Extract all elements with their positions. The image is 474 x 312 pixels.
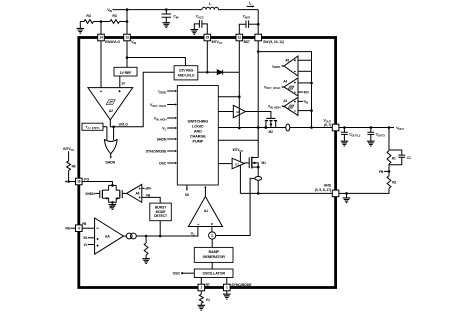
node SS soft start — [186, 185, 188, 189]
wire logic SW row 2 — [218, 139, 258, 141]
wire summer to ramp generator — [211, 239, 213, 247]
svg-text:SS: SS — [83, 236, 87, 240]
transistor M2 — [266, 117, 275, 119]
wire oscillator to RT pin — [200, 278, 202, 285]
svg-text:R2: R2 — [392, 180, 396, 184]
op-amp A4 VOUT_OVLO — [284, 78, 298, 96]
driver G1 — [232, 158, 244, 169]
wire EN/UVLO pin to A2 — [100, 41, 102, 88]
wire BST internal — [238, 41, 240, 128]
wire UVLO output — [110, 72, 174, 127]
pin 2 RT — [198, 284, 205, 291]
wire A4 plus to VOUT node — [298, 82, 312, 84]
capacitor COUT1,2 — [343, 128, 345, 133]
svg-text:A6: A6 — [135, 192, 139, 196]
svg-text:R6: R6 — [72, 165, 76, 169]
block OSCILLATOR — [194, 269, 233, 278]
svg-text:SW (9, 10, 11): SW (9, 10, 11) — [263, 40, 284, 44]
resistor VC clamp — [145, 236, 147, 243]
svg-text:CHARGE: CHARGE — [190, 134, 206, 138]
pin 15 INTVCC — [204, 34, 211, 41]
pin 14 EN/UVLO — [98, 34, 105, 41]
svg-text:PG: PG — [84, 177, 89, 181]
wire logic SW sense row — [218, 127, 266, 129]
block SWITCHING LOGIC AND CHARGE PUMP — [177, 86, 218, 186]
svg-text:OSC: OSC — [173, 271, 181, 275]
svg-text:16: 16 — [77, 180, 81, 184]
wire A1 plus to summer — [211, 227, 213, 232]
svg-text:A5: A5 — [285, 58, 289, 62]
node FB divider — [388, 170, 391, 173]
svg-text:R1: R1 — [392, 156, 396, 160]
sense element M2 — [286, 124, 290, 131]
wire A5 minus to VOUT node — [298, 70, 312, 72]
pin 16 PG — [76, 178, 83, 185]
svg-text:±8%: ±8% — [145, 187, 151, 191]
wire VC — [136, 227, 198, 237]
wire A3 minus to VOUT node — [298, 110, 312, 112]
svg-text:13: 13 — [125, 36, 129, 40]
svg-text:EA: EA — [105, 234, 110, 238]
svg-text:A4: A4 — [283, 79, 287, 83]
wire slope sense to summer — [216, 178, 255, 235]
wire EN/UVLO pin feed — [100, 22, 102, 35]
wire 1V reference to A2 — [119, 76, 121, 88]
svg-text:RAMP: RAMP — [209, 250, 220, 254]
pin 13 VIN — [124, 34, 131, 41]
svg-text:SHDN: SHDN — [105, 161, 115, 165]
block RAMP GENERATOR — [194, 247, 233, 262]
svg-text:A1: A1 — [204, 209, 208, 213]
ground EN divider — [77, 28, 85, 33]
block 3.5V REG AND UVLO — [174, 66, 198, 80]
wire SW to A5 plus — [258, 52, 311, 61]
wire logic to G1 — [218, 163, 232, 165]
op-amp EA error amplifier — [95, 218, 124, 254]
wire UVLO to OR gate — [112, 126, 115, 129]
svg-text:A2: A2 — [109, 109, 113, 113]
wire SW drop from rail — [257, 10, 259, 35]
svg-text:UVLO: UVLO — [119, 123, 129, 127]
capacitor COUT3 — [370, 128, 372, 133]
resistor R6 — [68, 151, 70, 161]
svg-text:M1: M1 — [262, 161, 267, 165]
svg-text:SHDN: SHDN — [157, 137, 167, 141]
ground VC clamp — [142, 259, 150, 264]
ground SYNC — [226, 291, 228, 294]
svg-text:15: 15 — [206, 36, 210, 40]
resistor R4 — [80, 21, 84, 23]
wire INTVCC pin to regulator — [206, 41, 208, 72]
summer sigma — [209, 232, 216, 239]
svg-text:TJ > 170°C: TJ > 170°C — [86, 125, 101, 130]
wire PG internal — [82, 182, 112, 186]
block BURST MODE DETECT — [150, 203, 172, 221]
ground output divider — [345, 192, 348, 195]
wire GND rail — [240, 192, 332, 194]
svg-text:3.5V REG: 3.5V REG — [179, 69, 194, 73]
inductor L — [202, 7, 219, 9]
ground RT — [198, 305, 206, 310]
pin 12 BST — [236, 34, 243, 41]
svg-text:SHDN: SHDN — [85, 192, 95, 196]
wire comparator common to VOUT — [311, 52, 313, 128]
svg-text:OSC: OSC — [159, 161, 167, 165]
svg-text:GND: GND — [324, 183, 332, 187]
IC boundary — [79, 38, 336, 288]
op-amp A2 — [88, 88, 133, 120]
resistor R3 — [101, 21, 110, 23]
node VIN/R3 junction — [126, 20, 129, 23]
wire FB to A6 and burst detect — [142, 197, 160, 203]
transistor PG pulldown pair — [102, 185, 119, 190]
node PG external — [67, 180, 70, 183]
svg-text:PUMP: PUMP — [193, 139, 204, 143]
op-amp A6 power good window comparator — [127, 184, 142, 202]
svg-text:SYNC/MODE: SYNC/MODE — [146, 149, 167, 153]
ground PG pulldown — [109, 205, 117, 210]
resistor R1 — [388, 128, 390, 151]
svg-text:14: 14 — [99, 36, 103, 40]
pin SW (9,10,11) — [255, 34, 262, 41]
svg-text:R4: R4 — [86, 14, 90, 18]
svg-text:C1: C1 — [407, 156, 411, 160]
svg-text:GENERATOR: GENERATOR — [203, 255, 226, 259]
wire SW vertical — [257, 41, 259, 158]
svg-text:SYNC/MODE: SYNC/MODE — [231, 283, 252, 287]
diode bootstrap — [207, 71, 217, 73]
wire M1 source to ground sense — [257, 167, 259, 193]
capacitor C1 — [389, 150, 402, 155]
node +/-8% reference — [142, 187, 145, 189]
node EN divider tap — [100, 20, 103, 23]
wire logic to BST charge pump — [218, 96, 239, 98]
svg-text:LOGIC: LOGIC — [192, 124, 204, 128]
wire A1 output to logic — [204, 188, 206, 197]
op-amp A3 VIN_HIGH — [284, 97, 298, 115]
svg-text:EN/UVLO: EN/UVLO — [105, 40, 120, 44]
transistor M1 — [248, 157, 250, 168]
svg-text:(3, 5, 8, 17): (3, 5, 8, 17) — [315, 188, 331, 192]
op-amp A5 I_ZERO — [284, 56, 298, 76]
svg-text:BST: BST — [244, 40, 250, 44]
wire G2 to M2 gate — [246, 112, 271, 119]
svg-text:M2: M2 — [269, 130, 274, 134]
wire VIN pin feed — [126, 10, 128, 35]
wire TJ to OR gate — [103, 127, 107, 140]
svg-text:G1: G1 — [235, 163, 239, 167]
wire logic to G2 — [218, 111, 233, 113]
node VIN sense — [298, 100, 303, 102]
svg-text:AND: AND — [194, 129, 202, 133]
svg-text:FB: FB — [65, 227, 70, 231]
svg-text:SWITCHING: SWITCHING — [187, 119, 208, 123]
sense element M1 — [255, 177, 262, 181]
node SHDN output — [110, 154, 112, 157]
svg-text:12: 12 — [238, 36, 242, 40]
current mirror gm output — [124, 235, 127, 237]
wire FB to EA — [82, 227, 95, 229]
svg-text:A3: A3 — [283, 99, 287, 103]
resistor R2 — [388, 171, 390, 175]
block TJ thermal — [82, 123, 103, 130]
wire G1 ground — [239, 165, 241, 193]
svg-text:AND UVLO: AND UVLO — [178, 74, 195, 78]
svg-text:G2: G2 — [236, 110, 240, 114]
wire VOUT row through M2 — [266, 127, 332, 129]
svg-text:1V REF: 1V REF — [120, 71, 133, 75]
capacitor CIN — [165, 8, 168, 11]
op-amp A1 PWM comparator — [188, 197, 222, 227]
block 1V REF — [114, 67, 137, 76]
svg-text:R3: R3 — [112, 14, 116, 18]
svg-text:FB: FB — [82, 222, 87, 226]
wire oscillator to SYNC pin — [226, 278, 228, 285]
node 40V reference — [298, 91, 303, 93]
driver G2 — [233, 105, 245, 118]
wire VIN internal — [126, 41, 128, 67]
wire burst detect to VC — [159, 221, 161, 236]
svg-text:(6, 7): (6, 7) — [324, 123, 331, 127]
gate OR shutdown — [104, 139, 117, 141]
wire ramp to oscillator — [211, 262, 213, 269]
wire VOUT external — [339, 127, 394, 129]
pin 1 SYNC/MODE — [224, 284, 231, 291]
svg-text:OSCILLATOR: OSCILLATOR — [202, 272, 225, 276]
svg-text:RT: RT — [206, 283, 210, 287]
svg-text:DETECT: DETECT — [154, 214, 168, 218]
resistor RT — [200, 291, 202, 294]
wire VIN top rail — [113, 9, 203, 11]
